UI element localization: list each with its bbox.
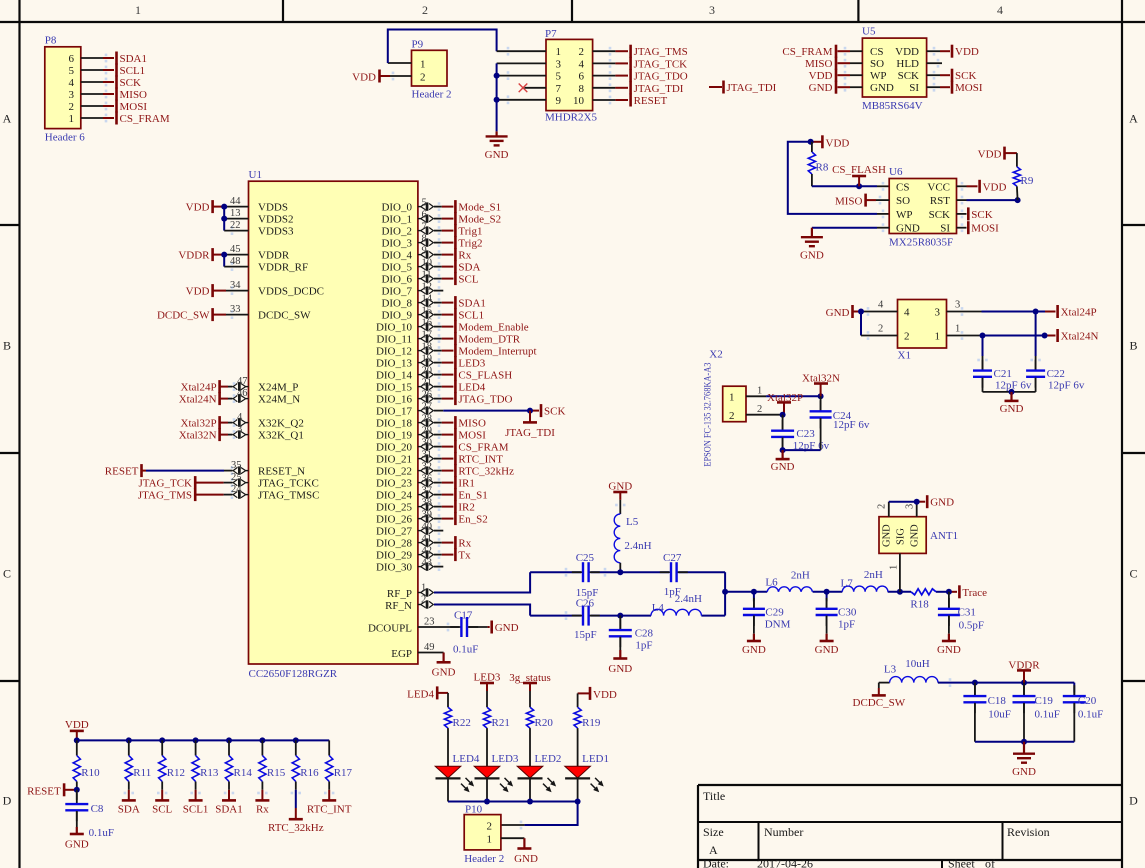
port Mode_S2 xyxy=(455,212,501,226)
svg-text:47: 47 xyxy=(237,376,248,387)
svg-text:U1: U1 xyxy=(249,169,262,181)
port CS_FLASH xyxy=(832,164,886,187)
svg-text:15pF: 15pF xyxy=(574,629,597,641)
port RTC_32kHz below R16 xyxy=(268,790,324,834)
svg-text:DIO_30: DIO_30 xyxy=(376,562,413,574)
svg-text:X32K_Q2: X32K_Q2 xyxy=(258,418,304,430)
capacitor C24 xyxy=(810,396,870,450)
svg-text:C18: C18 xyxy=(988,695,1007,707)
svg-text:10uF: 10uF xyxy=(988,708,1011,720)
svg-text:C8: C8 xyxy=(91,803,104,815)
flash chip U6 MX25R8035F xyxy=(889,166,957,249)
svg-text:SDA1: SDA1 xyxy=(215,803,243,815)
svg-text:5: 5 xyxy=(422,197,427,208)
port Xtal24P xyxy=(1058,305,1097,319)
svg-text:17: 17 xyxy=(422,329,433,340)
wire caps bottom bus xyxy=(975,741,1074,743)
pin DIO_3 (pin 8) xyxy=(418,233,454,247)
svg-text:X1: X1 xyxy=(898,350,911,362)
svg-text:RTC_INT: RTC_INT xyxy=(458,454,503,466)
port RESET at U1 xyxy=(105,464,249,478)
svg-text:VCC: VCC xyxy=(927,181,950,193)
svg-text:P7: P7 xyxy=(545,28,557,40)
pin DIO_24 (pin 37) xyxy=(418,485,454,499)
port DCDC_SW at U1 xyxy=(157,308,249,322)
svg-text:CS_FRAM: CS_FRAM xyxy=(458,442,508,454)
capacitor C17 xyxy=(450,609,490,655)
port JTAG_TMS xyxy=(631,45,688,59)
svg-text:35: 35 xyxy=(231,460,242,471)
junction balun output xyxy=(722,589,728,595)
wire pin to port CS_FRAM xyxy=(81,114,114,123)
wire R8 to U6 CS xyxy=(812,182,889,191)
svg-text:GND: GND xyxy=(771,461,795,473)
svg-text:DIO_16: DIO_16 xyxy=(376,394,413,406)
capacitor C31 xyxy=(938,592,984,634)
svg-text:11: 11 xyxy=(422,269,432,280)
resistor R22 xyxy=(444,707,470,766)
svg-text:Date:: Date: xyxy=(703,857,729,868)
pin EGP (49) xyxy=(418,642,444,653)
svg-text:R15: R15 xyxy=(267,767,286,779)
svg-text:D: D xyxy=(1129,794,1138,808)
svg-text:CS_FRAM: CS_FRAM xyxy=(782,46,832,58)
ground GND below C31 xyxy=(937,634,961,656)
svg-text:2nH: 2nH xyxy=(791,570,810,582)
svg-text:Size: Size xyxy=(703,825,724,839)
port VDD at P9 pin2 xyxy=(352,70,411,84)
svg-text:Xtal24P: Xtal24P xyxy=(1061,307,1097,319)
capacitor C20 xyxy=(1063,685,1103,742)
svg-text:LED4: LED4 xyxy=(407,689,434,701)
svg-text:22: 22 xyxy=(230,220,241,231)
wire VDDR/VDDR_RF xyxy=(224,255,248,271)
wire RF_P to balun top rail xyxy=(434,572,530,592)
port Xtal32P xyxy=(767,392,803,415)
LED LED4 xyxy=(435,753,480,802)
ground GND below C29 xyxy=(742,634,766,656)
junction VDDS xyxy=(221,204,227,210)
svg-text:JTAG_TCK: JTAG_TCK xyxy=(634,58,688,70)
capacitor C22 xyxy=(1026,312,1085,392)
svg-text:GND: GND xyxy=(432,667,456,679)
svg-text:42: 42 xyxy=(422,545,433,556)
svg-text:R8: R8 xyxy=(816,162,829,174)
svg-text:20: 20 xyxy=(422,365,433,376)
svg-text:30: 30 xyxy=(422,437,433,448)
svg-text:DIO_1: DIO_1 xyxy=(381,214,412,226)
connector P8 (Header 6) xyxy=(45,35,86,144)
svg-text:DIO_14: DIO_14 xyxy=(376,370,413,382)
svg-text:MOSI: MOSI xyxy=(971,223,999,235)
ground GND below C30 xyxy=(815,634,839,656)
svg-text:U6: U6 xyxy=(889,166,903,178)
wire VDDS/VDDS2/VDDS3 xyxy=(224,207,248,235)
svg-text:Xtal24N: Xtal24N xyxy=(1061,331,1099,343)
svg-text:DCDC_SW: DCDC_SW xyxy=(258,310,311,322)
junction L5 bottom xyxy=(617,569,623,575)
pin DIO_22 (pin 32) xyxy=(418,461,454,475)
resistor R18 xyxy=(910,589,936,611)
port Xtal32N xyxy=(802,372,840,396)
wire U6 VCC + port VDD xyxy=(957,180,1007,194)
svg-text:VDDR: VDDR xyxy=(178,250,210,262)
wire U6 RST to R9 xyxy=(957,196,1018,205)
junction R8 top / VDD xyxy=(808,139,814,145)
pin DIO_15 (pin 21) xyxy=(418,377,454,391)
wire U5 left pin + port GND xyxy=(809,81,863,95)
pin DIO_7 (pin 12) xyxy=(418,281,443,295)
svg-text:MOSI: MOSI xyxy=(120,101,148,113)
pin DIO_25 (pin 38) xyxy=(418,497,454,511)
port VDD at U1 VDDS_DCDC xyxy=(186,284,249,298)
svg-text:SDA: SDA xyxy=(458,262,480,274)
svg-text:10uH: 10uH xyxy=(905,658,930,670)
inductor L3 xyxy=(884,658,938,683)
svg-text:C23: C23 xyxy=(796,428,815,440)
wire P7 pins 3,5,9 to GND xyxy=(497,63,546,131)
port JTAG_TDI below SCK wire xyxy=(505,411,555,439)
svg-text:DCDC_SW: DCDC_SW xyxy=(157,310,210,322)
connector P9 (Header 2) xyxy=(412,39,452,101)
svg-text:0.1uF: 0.1uF xyxy=(453,643,478,655)
resistor R12 xyxy=(159,740,185,789)
wire X2 pin1 to C24 xyxy=(746,395,821,397)
pin DIO_4 (pin 9) xyxy=(418,245,454,259)
svg-text:DIO_3: DIO_3 xyxy=(381,238,412,250)
port DCDC_SW xyxy=(853,683,906,709)
svg-text:40: 40 xyxy=(422,521,433,532)
capacitor C28 xyxy=(609,616,654,652)
svg-text:DIO_22: DIO_22 xyxy=(376,466,412,478)
wire VDD to U6 WP xyxy=(788,142,889,219)
svg-text:L4: L4 xyxy=(652,602,665,614)
svg-text:R12: R12 xyxy=(167,767,185,779)
svg-text:GND: GND xyxy=(1012,766,1036,778)
svg-text:4: 4 xyxy=(878,300,884,311)
svg-text:Rx: Rx xyxy=(458,538,471,550)
ground GND below U6 xyxy=(800,228,824,262)
svg-text:1: 1 xyxy=(420,59,426,71)
svg-text:GND: GND xyxy=(937,644,961,656)
svg-text:7: 7 xyxy=(422,221,427,232)
svg-text:JTAG_TCKC: JTAG_TCKC xyxy=(258,478,319,490)
svg-text:3: 3 xyxy=(905,504,916,509)
svg-text:SO: SO xyxy=(896,195,910,207)
LED LED1 xyxy=(565,753,609,802)
svg-text:U5: U5 xyxy=(862,26,876,38)
svg-text:DIO_27: DIO_27 xyxy=(376,526,413,538)
svg-text:MISO: MISO xyxy=(835,196,863,208)
svg-text:D: D xyxy=(3,794,12,808)
svg-text:MISO: MISO xyxy=(805,58,833,70)
svg-text:Number: Number xyxy=(764,825,803,839)
pin DIO_29 (pin 42) xyxy=(418,545,454,559)
wire X1 pins 4,2 xyxy=(861,307,898,340)
wire P7 right pin to JTAG_TDO xyxy=(593,71,628,80)
svg-text:L6: L6 xyxy=(765,577,778,589)
wire U6 GND pin xyxy=(812,223,889,232)
svg-text:SCL1: SCL1 xyxy=(120,65,146,77)
svg-text:4: 4 xyxy=(237,412,243,423)
svg-text:46: 46 xyxy=(237,388,248,399)
svg-text:1: 1 xyxy=(889,565,900,570)
svg-text:27: 27 xyxy=(422,401,433,412)
junction R9 bottom xyxy=(1015,197,1021,203)
no-connect X at P7 pin7 xyxy=(519,84,546,93)
svg-text:41: 41 xyxy=(422,533,433,544)
pin DIO_10 (pin 16) xyxy=(418,317,454,331)
svg-text:4: 4 xyxy=(579,58,585,70)
pin DIO_20 (pin 30) xyxy=(418,437,454,451)
port CS_FRAM xyxy=(117,112,170,126)
svg-text:JTAG_TDO: JTAG_TDO xyxy=(634,71,688,83)
svg-text:GND: GND xyxy=(896,223,920,235)
pin DIO_23 (pin 36) xyxy=(418,473,454,487)
FRAM chip U5 MB85RS64V xyxy=(862,26,927,113)
svg-text:Modem_Enable: Modem_Enable xyxy=(458,322,528,334)
svg-text:SI: SI xyxy=(909,82,919,94)
svg-text:24: 24 xyxy=(231,484,242,495)
pin DIO_27 (pin 40) xyxy=(418,521,443,535)
svg-text:RESET_N: RESET_N xyxy=(258,466,305,478)
junction bus x=195 xyxy=(193,737,199,743)
svg-text:MHDR2X5: MHDR2X5 xyxy=(545,112,597,124)
svg-text:MX25R8035F: MX25R8035F xyxy=(889,237,953,249)
pin DIO_17 (pin 27) xyxy=(418,401,443,414)
junction gnd X1 caps xyxy=(1009,389,1015,395)
svg-text:2: 2 xyxy=(487,820,493,832)
port LED3 xyxy=(474,671,501,707)
port RESET at R10 xyxy=(27,783,77,797)
svg-text:VDD: VDD xyxy=(895,46,919,58)
svg-text:CS_FRAM: CS_FRAM xyxy=(120,113,170,125)
svg-text:1: 1 xyxy=(135,3,141,17)
junction ANT node xyxy=(897,589,903,595)
svg-text:EGP: EGP xyxy=(391,648,412,660)
svg-text:GND: GND xyxy=(815,644,839,656)
svg-text:P9: P9 xyxy=(412,39,424,51)
svg-text:SCL: SCL xyxy=(458,274,478,286)
svg-text:29: 29 xyxy=(422,425,433,436)
inductor L7 xyxy=(841,569,888,592)
svg-text:C26: C26 xyxy=(576,597,595,609)
pin DIO_28 (pin 41) xyxy=(418,533,454,547)
junction bus x=229 xyxy=(226,737,232,743)
svg-text:SDA: SDA xyxy=(118,803,140,815)
LED LED2 xyxy=(517,753,561,802)
connector P10 (Header 2) xyxy=(464,804,504,865)
svg-text:B: B xyxy=(1129,339,1137,353)
junction LED1 bus xyxy=(575,799,581,805)
capacitor C23 xyxy=(771,415,830,453)
wire U5 VDD pin + port VDD xyxy=(927,45,979,59)
wire U5 HLD stub xyxy=(927,59,942,68)
port RTC_INT xyxy=(455,452,503,466)
capacitor C25 xyxy=(572,552,600,599)
svg-text:3: 3 xyxy=(709,3,715,17)
ground GND below C28 xyxy=(608,650,632,675)
resistor R16 xyxy=(292,740,319,789)
svg-text:R14: R14 xyxy=(234,767,253,779)
port VDD at U1 VDDS xyxy=(186,200,225,214)
svg-text:En_S2: En_S2 xyxy=(458,514,487,526)
svg-text:2: 2 xyxy=(422,3,428,17)
port IR1 xyxy=(455,476,475,490)
port VDD above R9 xyxy=(978,147,1017,161)
svg-text:1: 1 xyxy=(935,331,941,343)
junction X1 gnd xyxy=(858,309,864,315)
wire DIO_17 to SCK xyxy=(443,410,539,412)
pin DIO_14 (pin 20) xyxy=(418,365,454,379)
svg-text:SCK: SCK xyxy=(955,70,976,82)
svg-text:MISO: MISO xyxy=(458,418,486,430)
junction bus x=162 xyxy=(159,737,165,743)
junction C30 top xyxy=(824,589,830,595)
svg-text:LED3: LED3 xyxy=(458,358,485,370)
svg-text:R19: R19 xyxy=(582,717,601,729)
svg-text:34: 34 xyxy=(230,280,241,291)
capacitor C29 (DNM) xyxy=(743,592,791,634)
pin RF_N (2) xyxy=(418,595,433,609)
svg-text:C28: C28 xyxy=(635,628,654,640)
port JTAG_TDO xyxy=(631,69,688,83)
inductor L5 xyxy=(614,500,651,572)
svg-text:RST: RST xyxy=(930,195,950,207)
svg-text:2: 2 xyxy=(69,101,75,113)
junction bus x=262 xyxy=(259,737,265,743)
svg-text:Modem_Interrupt: Modem_Interrupt xyxy=(458,346,536,358)
port SCL xyxy=(455,272,478,286)
svg-text:Trig1: Trig1 xyxy=(458,226,482,238)
resistor R9 xyxy=(1013,153,1034,200)
port Xtal24N xyxy=(1058,329,1099,343)
svg-text:LED1: LED1 xyxy=(582,753,609,765)
wire bus to P10 pin2 xyxy=(501,802,578,830)
svg-text:1: 1 xyxy=(421,583,426,594)
port VDD above R8 xyxy=(811,135,850,149)
ground GND below X2 xyxy=(771,450,795,473)
svg-text:2.4nH: 2.4nH xyxy=(624,540,651,552)
svg-text:DIO_7: DIO_7 xyxy=(381,286,412,298)
junction bus x=128 xyxy=(126,737,132,743)
svg-text:Header 2: Header 2 xyxy=(464,853,504,865)
junction C19/VDDR top xyxy=(1021,680,1027,686)
port Rx xyxy=(455,248,471,262)
port JTAG_TMS at U1 xyxy=(138,488,249,502)
svg-text:CS: CS xyxy=(896,181,909,193)
svg-text:DIO_2: DIO_2 xyxy=(381,226,412,238)
wire balun right vertical xyxy=(724,572,726,615)
svg-text:R21: R21 xyxy=(492,717,510,729)
resistor R10 xyxy=(73,740,100,789)
junction LED3 bus xyxy=(484,799,490,805)
svg-text:MB85RS64V: MB85RS64V xyxy=(862,100,923,112)
pin DIO_30 (pin 43) xyxy=(418,557,443,571)
port JTAG_TCK at U1 xyxy=(138,476,248,490)
svg-text:2: 2 xyxy=(579,46,585,58)
svg-text:Mode_S2: Mode_S2 xyxy=(458,214,501,226)
svg-text:MOSI: MOSI xyxy=(458,430,486,442)
port SDA1 below resistor xyxy=(215,790,243,816)
wire P7 right pin to JTAG_TDI xyxy=(593,83,628,92)
svg-text:EPSON FC-135 32.768KA-A3: EPSON FC-135 32.768KA-A3 xyxy=(704,362,714,466)
wire balun top rail xyxy=(530,568,725,577)
connector P7 (MHDR2X5) xyxy=(545,28,597,124)
svg-text:JTAG_TDI: JTAG_TDI xyxy=(727,82,777,94)
port MOSI xyxy=(117,100,148,114)
svg-text:6: 6 xyxy=(579,71,585,83)
svg-text:C20: C20 xyxy=(1078,695,1097,707)
resistor R8 xyxy=(808,142,829,187)
svg-text:VDD: VDD xyxy=(186,202,210,214)
port RTC_INT below resistor xyxy=(307,790,352,816)
wire U5 SI pin + port MOSI xyxy=(927,81,983,95)
svg-text:VDDS3: VDDS3 xyxy=(258,226,294,238)
crystal X2 EPSON FC-135 xyxy=(704,348,747,466)
port VDDR at U1 xyxy=(178,248,224,262)
svg-text:GND: GND xyxy=(809,82,833,94)
port GND above L5 xyxy=(608,481,632,500)
svg-text:VDDS_DCDC: VDDS_DCDC xyxy=(258,286,324,298)
svg-text:CC2650F128RGZR: CC2650F128RGZR xyxy=(249,668,338,680)
svg-text:DIO_19: DIO_19 xyxy=(376,430,413,442)
port JTAG_TDO xyxy=(455,392,512,406)
port Rx xyxy=(455,536,471,550)
port En_S1 xyxy=(455,488,487,502)
wire VDD bus xyxy=(77,739,329,741)
svg-text:43: 43 xyxy=(422,557,433,568)
capacitor C19 xyxy=(1013,683,1060,742)
port Xtal32P at U1 pin 4 xyxy=(181,416,249,430)
pin DIO_0 (pin 5) xyxy=(418,197,454,211)
svg-text:26: 26 xyxy=(422,389,433,400)
svg-text:R16: R16 xyxy=(300,767,319,779)
svg-text:8: 8 xyxy=(422,233,427,244)
wire U6 SCK + port SCK xyxy=(957,207,993,221)
svg-text:SO: SO xyxy=(870,58,884,70)
wire P7 right pin to JTAG_TCK xyxy=(593,59,628,68)
port Tx xyxy=(455,548,471,562)
title block xyxy=(698,785,1122,868)
pin DIO_8 (pin 14) xyxy=(418,293,454,307)
svg-text:DIO_28: DIO_28 xyxy=(376,538,413,550)
svg-text:DIO_26: DIO_26 xyxy=(376,514,413,526)
svg-text:VDD: VDD xyxy=(978,149,1002,161)
svg-text:C25: C25 xyxy=(576,552,595,564)
pin DIO_18 (pin 28) xyxy=(418,413,454,427)
svg-text:DIO_15: DIO_15 xyxy=(376,382,413,394)
svg-text:5: 5 xyxy=(69,65,75,77)
svg-text:CS_FLASH: CS_FLASH xyxy=(458,370,512,382)
junction C22 top xyxy=(1033,309,1039,315)
port CS_FRAM xyxy=(455,440,508,454)
svg-text:45: 45 xyxy=(230,244,241,255)
port JTAG_TDI (floating) xyxy=(709,81,777,95)
svg-text:P8: P8 xyxy=(45,35,57,47)
port Trace xyxy=(959,585,987,599)
svg-text:0.5pF: 0.5pF xyxy=(959,620,984,632)
LED LED3 xyxy=(474,753,519,802)
capacitor C18 xyxy=(963,683,1010,742)
svg-text:VDD: VDD xyxy=(186,286,210,298)
wire pin to port SDA1 xyxy=(81,54,114,63)
svg-text:B: B xyxy=(3,339,11,353)
svg-text:Title: Title xyxy=(703,789,725,803)
port SCL1 xyxy=(117,64,146,78)
svg-text:DIO_10: DIO_10 xyxy=(376,322,413,334)
junction bus x=295 xyxy=(293,737,299,743)
